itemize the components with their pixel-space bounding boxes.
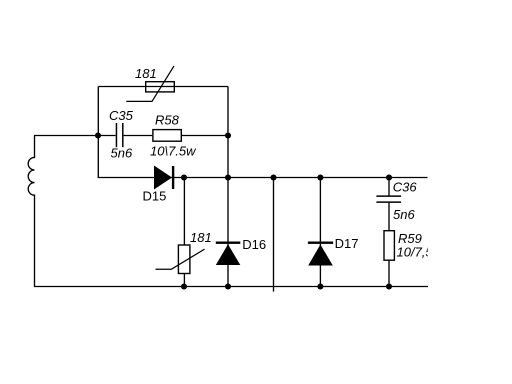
wire right branch vertical (through D16 to bottom bus) (227, 87, 229, 287)
varistor 181 (lower) body (178, 245, 190, 274)
varistor 181 (top) diagonal stroke (126, 66, 174, 102)
svg-text:5n6: 5n6 (393, 207, 415, 222)
wire R58 to node B (181, 135, 228, 137)
junction bus / D17 branch (317, 174, 323, 180)
wire bottom bus (34, 286, 428, 288)
diode D16 triangle (216, 244, 241, 265)
junction bottom varistor (181, 283, 187, 289)
wire D17 branch vertical (319, 178, 321, 287)
diode D15 triangle (154, 166, 172, 190)
varistor 181 (lower) diagonal stroke (156, 249, 205, 269)
capacitor C35 plates (115, 123, 117, 147)
diode D17 cathode bar (308, 242, 333, 244)
wire C35 to R58 (124, 135, 153, 137)
svg-text:5n6: 5n6 (111, 146, 133, 161)
svg-text:C36: C36 (393, 180, 418, 195)
svg-text:181: 181 (190, 230, 212, 245)
svg-text:D16: D16 (242, 237, 266, 252)
svg-text:10\7.5w: 10\7.5w (150, 144, 197, 159)
wire lower varistor bottom lead (183, 274, 185, 287)
resistor R58 body (153, 130, 181, 142)
wire lower varistor upper lead (183, 178, 185, 246)
svg-text:R58: R58 (155, 113, 180, 128)
junction bottom D16 (225, 283, 231, 289)
junction bus / middle branch (270, 174, 276, 180)
junction bus / D16 branch (225, 174, 231, 180)
wire plain middle branch (273, 178, 275, 292)
wire top-left horizontal (coil top to node A) (34, 135, 98, 137)
wire top branch horizontal (98, 86, 228, 88)
varistor 181 (top) body (146, 82, 175, 92)
wire C36 to R59 (388, 203, 390, 231)
wire node A down to main bus and bus to right end (98, 136, 427, 178)
svg-text:D17: D17 (335, 236, 359, 251)
junction bus / C36 branch (386, 174, 392, 180)
junction D15 cathode node (181, 174, 187, 180)
diode D15 cathode bar (172, 166, 174, 189)
svg-text:D15: D15 (143, 189, 167, 204)
capacitor C36 plates (376, 195, 401, 197)
svg-text:C35: C35 (109, 108, 134, 123)
junction bottom D17 (317, 283, 323, 289)
svg-text:181: 181 (135, 66, 157, 81)
wire C36 top lead (388, 178, 390, 196)
junction node B (225, 132, 231, 138)
wire node A up to top branch (97, 87, 99, 136)
wire node A to C35 (98, 135, 115, 137)
inductor L (coil) with left branch wire (28, 136, 34, 287)
junction bottom R59 (386, 283, 392, 289)
white clip over right edge of R59 value text (428, 244, 438, 261)
diode D16 cathode bar (216, 242, 241, 244)
diode D17 triangle (308, 245, 333, 266)
junction node A (95, 132, 101, 138)
wire R59 bottom lead (388, 260, 390, 286)
resistor R59 body (384, 231, 394, 261)
